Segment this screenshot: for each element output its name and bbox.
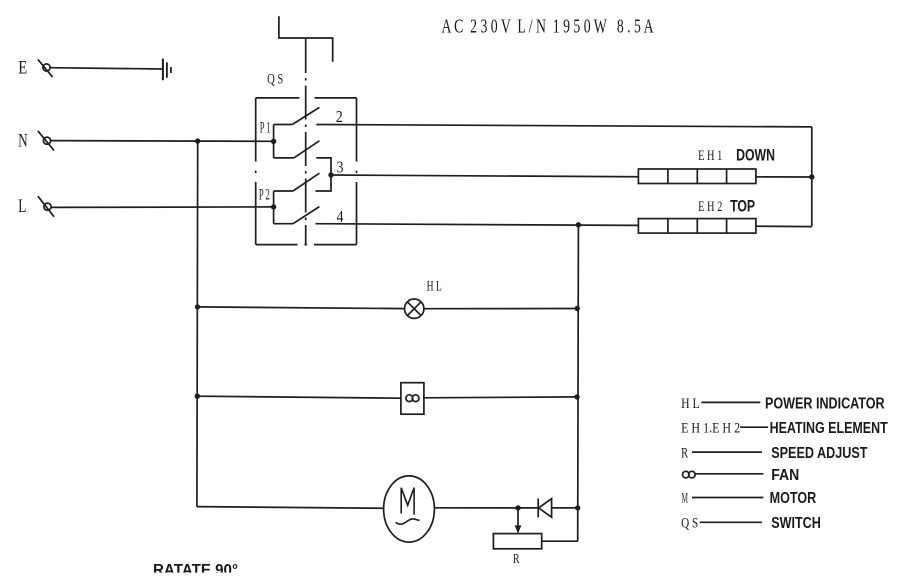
wire P1 upper pivot arm xyxy=(274,124,293,126)
diode D1 xyxy=(537,498,539,517)
legend R dash xyxy=(692,451,762,453)
switch blade P2 upper (to pin 3) xyxy=(293,173,319,191)
node fan left junction xyxy=(195,394,200,399)
wire motor to diode xyxy=(434,507,518,509)
terminal N contact circle xyxy=(43,137,50,144)
heating element EH2 body xyxy=(638,219,756,234)
wire HL left xyxy=(198,307,405,309)
svg-text:E: E xyxy=(18,58,27,79)
wire P2 pole riser xyxy=(273,191,275,224)
svg-text:3: 3 xyxy=(337,157,344,176)
node pin 3 junction xyxy=(328,172,333,177)
switch QS enclosure bottom border xyxy=(256,244,298,246)
wire HL right xyxy=(424,308,577,310)
wire motor bottom left xyxy=(197,507,384,509)
wire far right bus vertical xyxy=(811,127,813,227)
wire diode left xyxy=(518,507,538,509)
wire pin 3 bracket xyxy=(316,158,332,191)
legend fan dash xyxy=(695,473,763,475)
svg-text:SWITCH: SWITCH xyxy=(771,515,821,532)
wire left branch vertical xyxy=(196,141,199,507)
terminal L contact circle xyxy=(44,203,51,210)
wire EH2 to right bus xyxy=(756,225,812,227)
wire fan right xyxy=(424,396,577,399)
svg-text:TOP: TOP xyxy=(730,198,755,216)
wire pin 3 to EH1 xyxy=(331,175,638,177)
fan infinity symbol xyxy=(406,395,413,402)
wire right branch vertical xyxy=(577,225,580,541)
node EH1 right junction xyxy=(809,174,814,179)
svg-text:H L: H L xyxy=(427,279,442,295)
svg-text:H L: H L xyxy=(681,396,700,412)
svg-text:E H 1: E H 1 xyxy=(698,148,722,164)
node speed-adjust junction xyxy=(515,505,520,510)
svg-text:M: M xyxy=(682,491,689,507)
wire R to right bus xyxy=(542,540,578,542)
wire E lead xyxy=(50,68,163,69)
ground symbol xyxy=(162,59,164,81)
wire L to switch P2 xyxy=(51,206,274,209)
legend QS dash xyxy=(700,521,762,523)
svg-text:Q S: Q S xyxy=(267,72,283,88)
lamp HL xyxy=(405,299,424,318)
legend HL dash xyxy=(701,401,760,403)
node HL right junction xyxy=(575,306,580,311)
terminal E contact circle xyxy=(43,64,50,71)
switch mechanism dash-dot line xyxy=(305,39,307,244)
wire P2 upper pivot arm xyxy=(274,190,293,192)
legend M dash xyxy=(692,497,763,499)
svg-text:FAN: FAN xyxy=(771,467,799,484)
wire pin 4 to EH2 xyxy=(316,224,639,226)
svg-text:P 1: P 1 xyxy=(260,120,271,137)
svg-text:HEATING ELEMENT: HEATING ELEMENT xyxy=(770,420,888,437)
node diode right junction xyxy=(575,505,580,510)
terminal L slash xyxy=(38,196,54,217)
node fan right junction xyxy=(574,394,579,399)
switch QS enclosure left border xyxy=(255,98,257,162)
svg-text:R: R xyxy=(513,552,520,567)
heating element EH1 body xyxy=(638,169,756,184)
node N branch junction xyxy=(195,138,200,143)
terminal E slash xyxy=(38,59,53,77)
terminal N slash xyxy=(38,131,54,151)
svg-text:MOTOR: MOTOR xyxy=(770,490,817,507)
switch QS enclosure top border xyxy=(256,97,300,99)
wire N to switch P1 xyxy=(51,140,274,143)
wire fan left xyxy=(197,396,401,398)
svg-text:A C 2 3 0 V L / N 1 9 5 0 W: A C 2 3 0 V L / N 1 9 5 0 W 8 . 5 A xyxy=(442,16,654,38)
wire P1 lower pivot arm xyxy=(274,157,294,159)
svg-text:E H 2: E H 2 xyxy=(698,199,722,215)
wire P2 lower pivot arm xyxy=(274,223,293,225)
resistor R body xyxy=(493,534,541,549)
svg-text:DOWN: DOWN xyxy=(736,147,775,165)
switch actuator linkage xyxy=(279,16,333,62)
switch QS enclosure right border xyxy=(356,98,358,162)
fan body box xyxy=(401,383,424,415)
node HL left junction xyxy=(195,304,200,309)
wire EH1 to right bus xyxy=(756,176,812,178)
svg-text:N: N xyxy=(18,131,28,152)
svg-text:SPEED ADJUST: SPEED ADJUST xyxy=(771,445,867,462)
node P2 input junction xyxy=(271,204,276,209)
svg-text:POWER INDICATOR: POWER INDICATOR xyxy=(765,395,885,412)
svg-text:Q S: Q S xyxy=(681,515,698,531)
svg-text:E H 1.E H 2: E H 1.E H 2 xyxy=(681,421,740,437)
legend fan symbol xyxy=(683,471,690,478)
svg-text:R: R xyxy=(681,446,688,462)
svg-text:2: 2 xyxy=(336,107,343,126)
switch blade P2 lower (to pin 4) xyxy=(293,207,319,224)
node P1 input junction xyxy=(271,139,276,144)
wire diode right xyxy=(552,507,578,509)
switch blade P1 lower (to pin 3) xyxy=(294,141,320,158)
svg-text:L: L xyxy=(18,196,26,217)
wire P1 pole riser xyxy=(273,125,275,158)
wire pin 2 contact to right bus xyxy=(316,125,812,127)
legend EH dash xyxy=(740,426,768,428)
svg-text:P 2: P 2 xyxy=(259,186,270,203)
wire arrow to R xyxy=(517,508,519,527)
motor M body xyxy=(384,476,435,542)
node pin4 branch junction xyxy=(576,222,581,227)
motor tilde xyxy=(396,519,420,524)
motor M letter xyxy=(401,488,414,515)
switch blade P1 upper (to pin 2) xyxy=(292,107,319,124)
